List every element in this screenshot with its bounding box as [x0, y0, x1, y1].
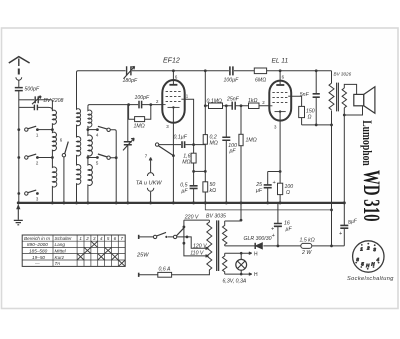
- resistor 1,5kOhm 2W: [301, 243, 312, 248]
- pin labels: [36, 75, 285, 202]
- svg-text:—: —: [34, 261, 40, 266]
- svg-text:Ω: Ω: [286, 190, 290, 196]
- EF12 cathode: [168, 106, 180, 108]
- variable capacitor (tuning) plates: [124, 142, 132, 145]
- switch 3: [25, 192, 28, 195]
- diode GLR300/30: [255, 243, 262, 249]
- resistor 150 Ohm: [299, 106, 305, 117]
- secondary bottom wire down: [343, 108, 345, 203]
- thin line bus stub to B+: [205, 203, 331, 210]
- svg-text:Schalter: Schalter: [55, 236, 73, 241]
- cap 16uF line: [277, 203, 279, 246]
- X TA col7: [118, 260, 125, 266]
- band table: [22, 235, 125, 266]
- capacitor 8uF plates: [340, 225, 348, 228]
- X Lang col3: [91, 241, 98, 247]
- EL11 cathode: [275, 111, 286, 113]
- resistor 0,1MOhm: [209, 103, 223, 109]
- capacitor 100uF plates (in top wire): [230, 66, 233, 75]
- svg-text:TA u UKW: TA u UKW: [136, 181, 163, 187]
- TA jack lower hook: [147, 188, 153, 191]
- resistor 0,2MOhm: [203, 135, 207, 145]
- 120V tap: [187, 237, 209, 250]
- capacitor 0,5uF plates: [190, 186, 198, 189]
- resistor 100Ohm: [278, 183, 283, 194]
- output transformer BV3026 primary zigzag: [329, 83, 334, 110]
- wire switch7 to 0,1uF: [159, 144, 206, 146]
- svg-text:1,5 kΩ: 1,5 kΩ: [300, 237, 315, 243]
- mains switch pole 1: [153, 235, 156, 238]
- X Mittel col5: [105, 247, 112, 253]
- EF12 grid wire: [88, 105, 162, 107]
- ground bus (thick): [18, 202, 344, 204]
- cap 8uF line: [343, 203, 345, 246]
- antenna line down to bus: [18, 91, 20, 203]
- switch 6: [62, 154, 65, 157]
- trimmer 180pF plates: [127, 66, 131, 75]
- EL11 screen stub pin5: [288, 95, 291, 97]
- switch 5: [107, 156, 110, 159]
- EL11 cathode network: [268, 121, 280, 203]
- tuning cap line: [127, 105, 129, 203]
- svg-text:EF12: EF12: [163, 58, 180, 65]
- capacitor 100pF mid plates: [222, 137, 230, 140]
- switch 2: [25, 156, 28, 159]
- resistor 6MOhm: [254, 68, 266, 74]
- svg-text:1MΩ: 1MΩ: [134, 124, 145, 130]
- capacitor 500pF: [15, 88, 23, 91]
- capacitor antenna fixed: [34, 105, 37, 111]
- coil column A with coils: [52, 108, 56, 203]
- antenna lead stub: [18, 59, 20, 67]
- capacitor 25uF plates: [264, 185, 272, 188]
- svg-text:0,1µF: 0,1µF: [174, 135, 188, 141]
- svg-text:19–50: 19–50: [32, 255, 45, 260]
- trimmer BV 2208: [35, 96, 38, 103]
- EL11 grid stub pin2: [269, 105, 272, 107]
- X Kurz col1: [77, 254, 84, 261]
- heater secondary zigzag: [223, 253, 227, 274]
- TA jack line lower: [150, 192, 152, 203]
- coil column C with coils: [88, 106, 92, 203]
- svg-text:Bereich in m: Bereich in m: [24, 236, 50, 241]
- capacitor 5nF plates: [313, 94, 320, 97]
- switch 1: [25, 128, 28, 131]
- svg-text:GLR 300/30: GLR 300/30: [244, 236, 272, 242]
- power transformer BV3035 primary zigzag: [207, 220, 212, 272]
- EF12 grid stub pin2: [162, 104, 165, 106]
- EL11 pin6 stub: [279, 71, 281, 81]
- svg-text:220 V: 220 V: [184, 214, 199, 220]
- wire 1,6M bottom to 50k line: [194, 170, 206, 172]
- EF12 pin1 stub: [181, 98, 184, 100]
- mains terminal 1: [138, 235, 140, 239]
- resistor 1,6MOhm: [191, 153, 196, 163]
- svg-text:100pF: 100pF: [135, 95, 151, 101]
- capacitor 0,1uF plates: [182, 141, 185, 148]
- svg-text:MΩ: MΩ: [182, 160, 190, 166]
- tuning cap arrow: [123, 138, 134, 150]
- svg-text:180pF: 180pF: [123, 78, 139, 84]
- EL11 anode bar: [276, 84, 284, 86]
- svg-text:EL 11: EL 11: [272, 58, 289, 65]
- svg-text:H: H: [254, 251, 258, 257]
- mains switch pole 2: [173, 235, 176, 238]
- trimmer 180pF arrow: [124, 66, 135, 78]
- svg-text:25W: 25W: [136, 253, 149, 259]
- speaker branch wire: [344, 106, 362, 115]
- svg-text:110 V: 110 V: [190, 250, 204, 256]
- svg-text:6,3V, 0,3A: 6,3V, 0,3A: [223, 279, 247, 285]
- svg-text:890–2000: 890–2000: [27, 242, 48, 247]
- svg-text:BV 3035: BV 3035: [206, 213, 226, 219]
- svg-text:Sockelschaltung: Sockelschaltung: [347, 276, 394, 282]
- EF12 cathode line: [172, 123, 174, 203]
- tube EL11: [269, 81, 291, 121]
- 5nF branch line: [315, 71, 317, 125]
- resistor 50kOhm: [203, 182, 208, 192]
- svg-text:H: H: [254, 272, 258, 278]
- svg-text:µF: µF: [286, 227, 293, 233]
- pilot lamp 6,3V 0,3A: [236, 259, 247, 270]
- heater top wire with H arrow: [225, 252, 252, 254]
- EF12 anode chain x=193.6: [185, 99, 194, 203]
- wire to trimmer: [19, 99, 34, 101]
- wire trimmer to coil A top: [38, 100, 52, 108]
- svg-text:5nF: 5nF: [300, 92, 310, 98]
- EL11 screen wire to 150 Ohm: [291, 96, 301, 106]
- svg-text:Kurz: Kurz: [55, 255, 65, 260]
- svg-text:Lang: Lang: [55, 242, 66, 247]
- X Mittel col2: [84, 247, 91, 253]
- EF12 anode bar: [169, 84, 177, 86]
- svg-text:+: +: [273, 180, 276, 186]
- antenna symbol: [9, 57, 30, 63]
- svg-text:µF: µF: [181, 189, 188, 195]
- switch 4: [107, 128, 110, 131]
- svg-text:MΩ: MΩ: [210, 141, 218, 147]
- svg-text:BV 2208: BV 2208: [44, 98, 64, 104]
- power transformer core: [217, 220, 219, 271]
- secondary top wire to speaker: [344, 84, 356, 94]
- svg-text:100µF: 100µF: [224, 78, 240, 84]
- antenna plug hook: [16, 77, 22, 80]
- HV secondary zigzag: [223, 221, 227, 246]
- mains wire 1: [139, 236, 187, 238]
- B+ vertical to output transformer: [331, 71, 333, 246]
- resistor 1MOhm grid leak: [129, 105, 151, 120]
- top wire (AVC/anode bus): [77, 71, 332, 110]
- capacitor 100pF grid plates: [139, 101, 142, 109]
- HV secondary top to bus: [225, 203, 241, 221]
- heater bottom wire with H arrow: [225, 273, 252, 275]
- svg-text:25nF: 25nF: [226, 97, 240, 103]
- svg-text:6MΩ: 6MΩ: [255, 78, 266, 84]
- X Kurz col4: [98, 254, 105, 261]
- EL11 grids dashed: [272, 93, 288, 103]
- svg-text:120 V: 120 V: [193, 243, 207, 249]
- 220V line: [184, 219, 210, 221]
- svg-text:+: +: [339, 231, 342, 237]
- fuse wire 2: [138, 273, 140, 277]
- svg-text:2: 2: [85, 236, 89, 241]
- svg-text:2 W: 2 W: [301, 250, 312, 256]
- output transformer core: [337, 83, 339, 112]
- earth symbol: [17, 209, 19, 220]
- svg-text:1kΩ: 1kΩ: [248, 98, 257, 104]
- speaker: [354, 94, 364, 105]
- svg-text:Mittel: Mittel: [55, 248, 67, 253]
- EF12 pin6 stub: [172, 71, 174, 80]
- switch 7 lever: [155, 143, 158, 146]
- tube socket diagram: [353, 241, 384, 272]
- resistor 1kOhm: [249, 103, 260, 109]
- svg-text:pF: pF: [229, 148, 237, 154]
- rectifier wire: [225, 245, 345, 247]
- coil column B with coils: [77, 72, 81, 203]
- TA jack upper hook: [147, 173, 153, 176]
- svg-text:WD 310: WD 310: [359, 170, 384, 222]
- svg-text:TA: TA: [55, 261, 61, 266]
- table texts: [24, 236, 124, 266]
- svg-text:+: +: [272, 233, 275, 239]
- svg-text:1MΩ: 1MΩ: [246, 138, 257, 144]
- svg-text:µF: µF: [256, 188, 263, 194]
- svg-text:Ω: Ω: [308, 115, 312, 121]
- TA jack line upper with contact arrow 7: [149, 158, 152, 173]
- antenna wire down: [18, 81, 20, 88]
- switch bank 2 line: [110, 130, 116, 203]
- X Kurz col6: [112, 254, 119, 261]
- wire fixed cap: [19, 107, 53, 110]
- svg-text:Lumophon: Lumophon: [360, 120, 374, 166]
- svg-text:500pF: 500pF: [25, 86, 41, 92]
- capacitor 25nF plates: [232, 102, 235, 110]
- voltage selector vertical: [184, 220, 209, 257]
- tube EF12: [162, 80, 184, 123]
- svg-text:0,1MΩ: 0,1MΩ: [207, 99, 223, 105]
- svg-text:0,6 A: 0,6 A: [159, 266, 171, 272]
- resistor 1MOhm mid line: [240, 106, 242, 203]
- capacitor 16uF plates: [274, 224, 282, 227]
- EF12 grids dashed: [166, 92, 182, 102]
- cap 100pF mid line: [225, 106, 227, 203]
- svg-text:kΩ: kΩ: [210, 188, 217, 194]
- output transformer secondary zigzag: [342, 88, 346, 108]
- wire y=105.8 (EL11 grid chain): [204, 71, 206, 203]
- fuse 0,6A: [158, 272, 172, 277]
- svg-text:+: +: [271, 227, 274, 233]
- wire y=124.9: [302, 124, 332, 126]
- svg-text:185–580: 185–580: [29, 248, 48, 253]
- svg-text:BV 3026: BV 3026: [334, 72, 352, 77]
